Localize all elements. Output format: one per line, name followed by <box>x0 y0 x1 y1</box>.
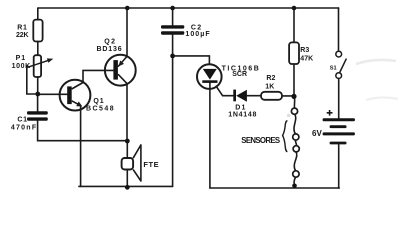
wire R1 to P1 <box>37 41 39 55</box>
svg-text:SCR: SCR <box>232 71 247 78</box>
svg-text:R2: R2 <box>266 75 275 82</box>
potentiometer P1 <box>27 55 54 77</box>
wire Q2 emitter riser <box>126 8 128 56</box>
wire speaker top lead <box>126 141 128 158</box>
svg-text:100µF: 100µF <box>185 31 210 38</box>
label P1 100K <box>12 55 31 70</box>
wire bottom right rail <box>210 187 339 189</box>
resistor R3 <box>289 42 299 64</box>
wire R1 top lead <box>37 8 39 20</box>
svg-text:R1: R1 <box>17 24 27 31</box>
wire Q1 emitter to bottom rail <box>80 106 82 187</box>
scan speck near R2 <box>287 114 290 117</box>
svg-text:470nF: 470nF <box>11 125 37 132</box>
transistor Q2 <box>105 55 136 86</box>
label C2 100uF <box>185 24 210 38</box>
label D1 1N4148 <box>228 104 256 118</box>
sensor contact 4 <box>293 171 299 177</box>
wire SCR cathode drop <box>209 83 211 188</box>
scan smudge right middle <box>366 98 398 100</box>
wire D1 to R2 <box>247 95 261 97</box>
sensor contact 3 <box>293 146 299 152</box>
svg-text:R3: R3 <box>300 47 309 54</box>
node dot top rail R3 <box>292 6 297 11</box>
label TIC106B SCR <box>222 65 259 78</box>
capacitor C1 <box>27 111 48 120</box>
svg-text:100K: 100K <box>12 63 31 70</box>
svg-text:Q1: Q1 <box>93 98 103 105</box>
wire C1 bottom to speaker node <box>38 121 128 141</box>
wire node A to C1 <box>37 94 39 111</box>
sensor contact 1 <box>291 108 297 114</box>
SCR U1 TIC106B <box>197 64 222 89</box>
resistor R2 <box>261 92 282 100</box>
svg-text:P1: P1 <box>16 55 26 62</box>
label R3 47K <box>300 47 313 62</box>
wire battery negative to rail <box>338 145 340 188</box>
label C1 470nF <box>11 116 37 131</box>
wire node B to SCR anode <box>173 56 210 65</box>
wire R2 to node X <box>282 95 294 97</box>
svg-text:1K: 1K <box>265 83 274 90</box>
svg-text:SENSORES: SENSORES <box>241 136 280 145</box>
speaker FTE <box>122 145 141 181</box>
battery plus sign <box>327 110 333 116</box>
capacitor C2 <box>161 25 184 35</box>
label R2 1K <box>265 75 275 90</box>
wire speaker bottom lead <box>126 170 128 188</box>
wire P1 wiper return <box>27 66 38 94</box>
resistor R1 <box>33 20 42 42</box>
battery B1 6V <box>323 118 355 144</box>
svg-text:S1: S1 <box>330 65 337 71</box>
label Q1 BC548 <box>86 98 114 113</box>
wire R3 to node X <box>293 64 295 96</box>
svg-text:1N4148: 1N4148 <box>228 111 256 118</box>
wire Q1 collector to Q2 base <box>83 70 113 82</box>
svg-text:BC548: BC548 <box>86 106 114 113</box>
wire S1 riser <box>338 8 340 51</box>
transistor Q1 <box>60 80 91 111</box>
wire Q2 collector drop <box>126 84 128 141</box>
node dot top rail C2 <box>170 6 175 11</box>
svg-text:22K: 22K <box>16 32 29 39</box>
svg-text:Q2: Q2 <box>104 38 115 45</box>
wire R3 top lead <box>293 8 295 42</box>
label R1 22K <box>16 24 29 39</box>
switch S1 <box>336 51 347 78</box>
wire S1 to battery <box>338 79 340 119</box>
node dot sensors bottom <box>292 184 297 189</box>
svg-text:47K: 47K <box>300 55 313 62</box>
diode D1 <box>233 90 247 102</box>
svg-text:BD136: BD136 <box>97 46 122 53</box>
node dot X R2/R3/sensors <box>291 94 296 99</box>
wire top rail <box>38 7 339 9</box>
node dot A P1/C1/Q1 <box>35 92 40 97</box>
sensor contact 2 <box>293 134 299 140</box>
brace sensores <box>283 121 288 152</box>
svg-text:C1: C1 <box>17 116 27 123</box>
node dot speaker bottom <box>125 185 130 190</box>
wire SCR gate to D1 <box>216 86 233 95</box>
wire C2 bottom to rail <box>172 35 174 187</box>
svg-text:6V: 6V <box>312 129 322 138</box>
node dot B C2/SCR anode <box>170 54 175 59</box>
scan smudge right of switch <box>356 60 396 64</box>
wire C2 top lead <box>172 8 174 25</box>
node dot top rail Q2 <box>125 6 130 11</box>
node dot speaker top <box>125 139 130 144</box>
sensor chain wires <box>294 96 297 184</box>
svg-text:FTE: FTE <box>143 160 158 169</box>
label Q2 BD136 <box>97 38 122 53</box>
wire P1 to node A <box>37 77 39 94</box>
wire node A to Q1 base <box>38 93 67 95</box>
wire bottom left rail <box>79 185 173 187</box>
